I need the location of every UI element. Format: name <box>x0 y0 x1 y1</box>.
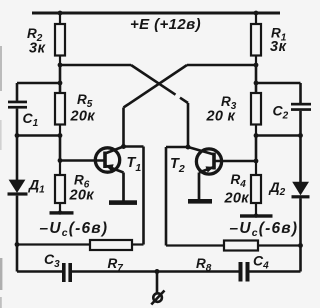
node T1 base <box>58 158 63 163</box>
node T2 base <box>254 159 259 164</box>
wire T2 collector output branch <box>166 147 188 246</box>
svg-text:3к: 3к <box>29 41 46 57</box>
svg-text:20к: 20к <box>224 191 250 207</box>
diode D2 <box>292 136 310 272</box>
resistor R7 with wires <box>17 240 144 250</box>
wire C1 bottom link <box>17 134 60 137</box>
wire left column down to R5 <box>59 65 62 93</box>
resistor R5 <box>55 93 65 136</box>
capacitor C4 <box>239 262 250 282</box>
resistor R3 <box>251 93 261 136</box>
svg-text:3к: 3к <box>270 39 287 55</box>
wire right column down to R3 <box>255 65 258 93</box>
wire to T1 base node <box>59 136 62 161</box>
capacitor C2 <box>291 83 311 136</box>
wire C1 top branch <box>17 82 60 85</box>
node T2 collector <box>186 145 191 150</box>
node output terminal <box>155 269 160 274</box>
node C1 branch <box>58 81 63 86</box>
wire C2 top branch <box>256 82 301 85</box>
node R1 bottom <box>254 63 259 68</box>
svg-text:+E (+12в): +E (+12в) <box>130 16 201 33</box>
node R5 bottom <box>58 133 63 138</box>
wire R1 node to T1 collector (cross-coupling) <box>124 65 257 147</box>
transistor T2 <box>188 147 222 200</box>
svg-text:20к: 20к <box>69 188 95 204</box>
bottom bus right segment <box>250 270 301 273</box>
bottom bus middle segment <box>72 270 239 273</box>
node rail-R2 <box>58 11 63 16</box>
svg-text:20 к: 20 к <box>206 109 236 125</box>
bottom bus left segment <box>17 270 62 273</box>
resistor R1 <box>251 13 261 65</box>
ground T2 <box>188 199 212 204</box>
node C1-D1 <box>15 133 20 138</box>
resistor R2 <box>55 13 65 65</box>
svg-text:–Uс(-6в): –Uс(-6в) <box>230 220 299 239</box>
node R2 bottom <box>58 63 63 68</box>
node C2 branch <box>254 81 259 86</box>
resistor R6 <box>55 161 65 212</box>
wire T1 collector output branch <box>124 147 144 245</box>
wire to T2 base node <box>255 136 258 162</box>
diode D1 <box>8 136 28 272</box>
node R3 bottom <box>254 133 259 138</box>
svg-text:–Uс(-6в): –Uс(-6в) <box>40 220 109 239</box>
output terminal <box>151 272 164 305</box>
node R7-D1 <box>15 242 20 247</box>
svg-text:20к: 20к <box>70 109 96 125</box>
-Uc terminal right <box>240 214 273 217</box>
resistor R4 <box>251 161 261 215</box>
resistor R8 with wires <box>166 241 301 251</box>
node T1 collector <box>121 144 126 149</box>
capacitor C3 <box>62 263 72 282</box>
wire R2 node to T2 collector (cross-coupling) <box>60 65 188 147</box>
node rail-R1 <box>254 11 259 16</box>
wire C2 bottom link <box>256 134 301 137</box>
+E supply rail <box>32 12 280 15</box>
-Uc terminal left <box>50 211 74 214</box>
wire T2 base <box>215 160 256 163</box>
ground T1 <box>109 200 137 205</box>
wire T1 base <box>60 159 104 162</box>
node R8-D2 <box>298 243 303 248</box>
transistor T1 <box>95 147 123 201</box>
node C2-D2 <box>298 133 303 138</box>
capacitor C1 <box>8 83 27 136</box>
